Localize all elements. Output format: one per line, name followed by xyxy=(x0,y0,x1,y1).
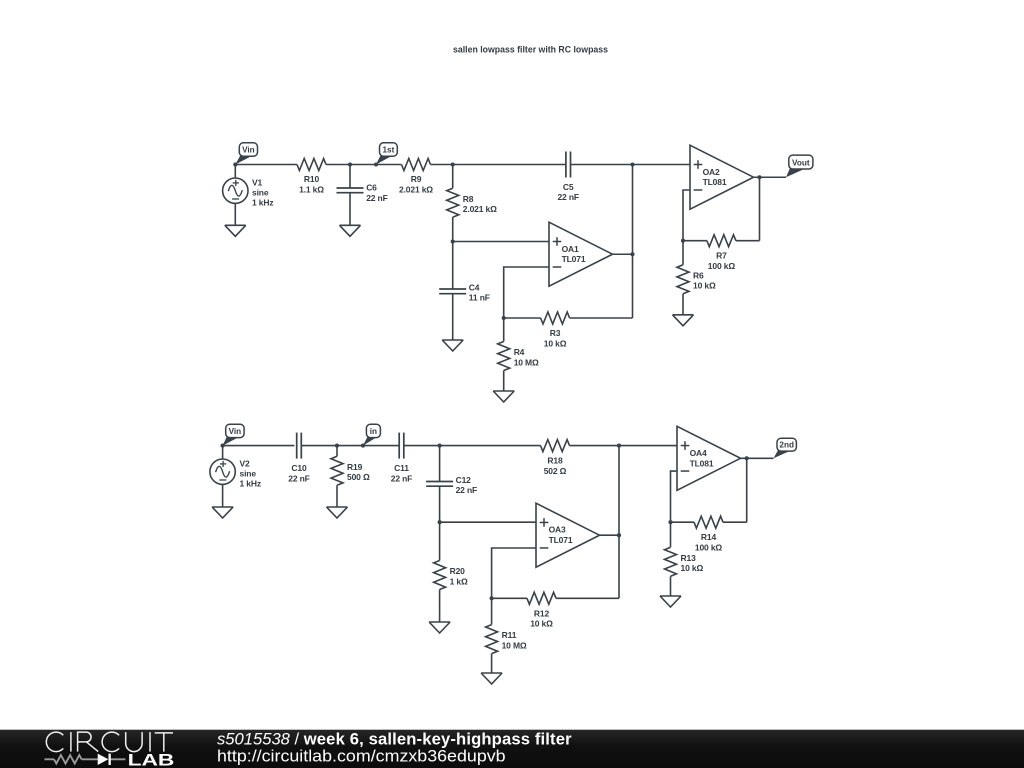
junction dot R3/R4/OA1- node xyxy=(502,316,506,320)
wire C5 to OA2 plus input xyxy=(571,164,690,166)
svg-text:C5: C5 xyxy=(563,182,574,192)
junction dot R19 top xyxy=(335,444,339,448)
capacitor C5 xyxy=(557,152,578,203)
resistor R3 xyxy=(504,312,633,348)
svg-text:C11: C11 xyxy=(394,463,409,473)
resistor R18 xyxy=(541,440,570,476)
svg-text:C4: C4 xyxy=(469,282,480,292)
svg-text:OA1: OA1 xyxy=(562,244,579,254)
svg-text:10 kΩ: 10 kΩ xyxy=(544,338,567,348)
wire C10 to C11 xyxy=(302,445,400,447)
svg-text:R6: R6 xyxy=(693,270,704,280)
svg-text:R4: R4 xyxy=(514,347,525,357)
wire OA4 output to 2nd flag xyxy=(741,457,774,459)
resistor R10 xyxy=(297,159,326,195)
junction dot Vin node xyxy=(233,162,237,166)
junction dot Vin bottom node xyxy=(221,444,225,448)
capacitor C11 xyxy=(391,433,412,484)
resistor R4 xyxy=(498,318,539,391)
wire R10 to R9 xyxy=(326,164,402,166)
svg-text:R10: R10 xyxy=(304,174,320,184)
svg-text:R7: R7 xyxy=(716,251,727,261)
node flag Vin (top) xyxy=(235,143,257,165)
junction dot OA4 output xyxy=(745,456,749,460)
resistor R19 xyxy=(331,446,370,507)
junction dot C5 node xyxy=(630,162,634,166)
resistor R13 xyxy=(665,522,704,596)
svg-text:TL071: TL071 xyxy=(549,535,573,545)
wire top main V1 to R10 xyxy=(235,164,297,166)
wire OA2 minus input down xyxy=(683,190,690,241)
wire feedback vertical R12 to bottom main wire xyxy=(618,446,620,599)
svg-text:2.021 kΩ: 2.021 kΩ xyxy=(399,185,433,195)
svg-text:Vin: Vin xyxy=(229,427,242,436)
ground under R13 xyxy=(660,596,681,607)
svg-text:2.021 kΩ: 2.021 kΩ xyxy=(463,204,497,214)
svg-text:22 nF: 22 nF xyxy=(456,485,477,495)
resistor R7 xyxy=(683,235,760,271)
wire feedback vertical R3 to top wire xyxy=(632,165,634,319)
svg-text:R14: R14 xyxy=(701,532,717,542)
junction dot R6/R7/OA2- node xyxy=(681,239,685,243)
svg-text:TL081: TL081 xyxy=(703,177,727,187)
junction dot OA1 output xyxy=(630,252,634,256)
svg-text:R12: R12 xyxy=(534,608,550,618)
ground under V2 xyxy=(212,507,233,518)
svg-text:C12: C12 xyxy=(456,475,472,485)
resistor R12 xyxy=(492,592,619,628)
wire OA4 minus input down xyxy=(671,471,678,522)
svg-text:V1: V1 xyxy=(252,178,263,188)
svg-text:R19: R19 xyxy=(347,462,363,472)
node flag 1st xyxy=(376,143,397,165)
CircuitLab logo word CIRCUIT xyxy=(46,732,173,752)
capacitor C12 xyxy=(426,446,477,523)
CircuitLab logo word LAB xyxy=(128,751,175,768)
svg-text:sine: sine xyxy=(240,469,257,479)
svg-text:R8: R8 xyxy=(463,194,474,204)
svg-text:2nd: 2nd xyxy=(779,441,794,450)
ground under R19 xyxy=(327,507,348,518)
ground under R11 xyxy=(481,673,502,684)
op-amp OA3 xyxy=(536,503,600,567)
resistor R20 xyxy=(434,522,468,622)
svg-text:TL071: TL071 xyxy=(562,254,586,264)
svg-text:R11: R11 xyxy=(502,630,517,640)
svg-text:11 nF: 11 nF xyxy=(469,293,490,303)
node flag in xyxy=(363,424,380,445)
svg-text:10 MΩ: 10 MΩ xyxy=(514,357,539,367)
junction dot R13/R14/OA4- node xyxy=(668,520,672,524)
svg-text:C6: C6 xyxy=(366,183,377,193)
wire OA1 minus input down to R3 node xyxy=(504,267,549,318)
svg-text:R3: R3 xyxy=(550,328,561,338)
junction dot R11/R12/OA3- node xyxy=(490,596,494,600)
svg-text:R13: R13 xyxy=(681,553,697,563)
wire C12 bottom to OA3 plus input xyxy=(440,521,536,523)
svg-text:OA3: OA3 xyxy=(549,525,566,535)
svg-text:500 Ω: 500 Ω xyxy=(347,472,370,482)
capacitor C4 xyxy=(439,242,490,341)
svg-text:100 kΩ: 100 kΩ xyxy=(695,543,723,553)
svg-text:10 kΩ: 10 kΩ xyxy=(530,619,553,629)
capacitor C6 xyxy=(337,165,388,226)
svg-text:22 nF: 22 nF xyxy=(557,192,578,202)
junction dot OA3 output xyxy=(617,533,621,537)
svg-text:TL081: TL081 xyxy=(690,458,714,468)
svg-text:R18: R18 xyxy=(547,456,563,466)
CircuitLab logo resistor-diode glyph xyxy=(45,755,126,763)
svg-text:100 kΩ: 100 kΩ xyxy=(708,261,736,271)
resistor R9 xyxy=(399,159,433,195)
svg-text:1 kHz: 1 kHz xyxy=(240,479,261,489)
svg-text:C10: C10 xyxy=(291,463,307,473)
op-amp OA4 xyxy=(677,426,741,490)
svg-text:1.1 kΩ: 1.1 kΩ xyxy=(299,185,324,195)
svg-text:in: in xyxy=(370,427,377,436)
resistor R6 xyxy=(677,241,716,315)
junction dot C6 top xyxy=(348,162,352,166)
svg-text:V2: V2 xyxy=(240,459,251,469)
svg-text:OA4: OA4 xyxy=(690,448,707,458)
resistor R8 xyxy=(447,165,497,242)
wire OA2 output to Vout xyxy=(754,176,787,178)
node flag Vout xyxy=(786,155,813,177)
node flag Vin (bottom) xyxy=(223,424,244,445)
svg-text:sallen lowpass filter with RC: sallen lowpass filter with RC lowpass xyxy=(453,45,608,55)
junction dot in node xyxy=(361,444,365,448)
svg-text:22 nF: 22 nF xyxy=(391,473,412,483)
resistor R11 xyxy=(486,598,527,673)
junction dot R18/OA4+ node xyxy=(617,444,621,448)
node flag 2nd xyxy=(774,438,797,458)
ground under C6 xyxy=(340,225,361,236)
svg-text:1 kHz: 1 kHz xyxy=(252,198,273,208)
svg-text:22 nF: 22 nF xyxy=(366,193,387,203)
capacitor C10 xyxy=(288,433,309,484)
ground under R6 xyxy=(673,315,694,326)
wire OA1 output xyxy=(613,253,633,255)
op-amp OA2 xyxy=(690,145,754,209)
junction dot R8 top xyxy=(451,162,455,166)
svg-text:10 kΩ: 10 kΩ xyxy=(693,281,716,291)
ground under R4 xyxy=(493,391,514,402)
wire C11 to R18 xyxy=(404,445,540,447)
svg-text:22 nF: 22 nF xyxy=(288,473,309,483)
voltage source V1 xyxy=(223,165,274,226)
wire R18 to OA4 plus input xyxy=(570,445,678,447)
svg-text:Vout: Vout xyxy=(792,158,810,167)
svg-text:http://circuitlab.com/cmzxb36e: http://circuitlab.com/cmzxb36edupvb xyxy=(217,746,506,765)
wire R8 bottom to OA1 plus input xyxy=(453,241,549,243)
svg-text:1 kΩ: 1 kΩ xyxy=(450,576,468,586)
svg-text:sine: sine xyxy=(252,188,269,198)
svg-text:10 kΩ: 10 kΩ xyxy=(681,563,704,573)
junction dot 1st node xyxy=(374,162,378,166)
wire bottom main V2 to C10 xyxy=(223,445,295,447)
junction dot C12 top xyxy=(438,444,442,448)
wire feedback OA2 output down to R7 xyxy=(759,177,761,240)
junction dot C12/R20/OA3+ node xyxy=(438,520,442,524)
svg-text:R20: R20 xyxy=(450,566,466,576)
svg-text:10 MΩ: 10 MΩ xyxy=(502,640,527,650)
wire OA3 output xyxy=(600,534,620,536)
svg-text:1st: 1st xyxy=(382,146,394,155)
wire R9 to C5 xyxy=(431,164,566,166)
wire feedback OA4 output down to R14 xyxy=(746,458,748,522)
junction dot OA2 output xyxy=(757,175,761,179)
svg-text:OA2: OA2 xyxy=(703,167,720,177)
ground under R20 xyxy=(429,622,450,633)
svg-text:LAB: LAB xyxy=(128,751,175,768)
op-amp OA1 xyxy=(549,222,613,286)
junction dot node R8/C4/OA1+ xyxy=(451,239,455,243)
voltage source V2 xyxy=(210,446,261,507)
ground under C4 xyxy=(442,340,463,351)
wire OA3 minus input down to R12 node xyxy=(492,548,536,598)
resistor R14 xyxy=(671,516,747,552)
ground under V1 xyxy=(225,225,246,236)
svg-text:502 Ω: 502 Ω xyxy=(544,466,567,476)
svg-text:Vin: Vin xyxy=(242,146,255,155)
svg-text:R9: R9 xyxy=(411,174,422,184)
